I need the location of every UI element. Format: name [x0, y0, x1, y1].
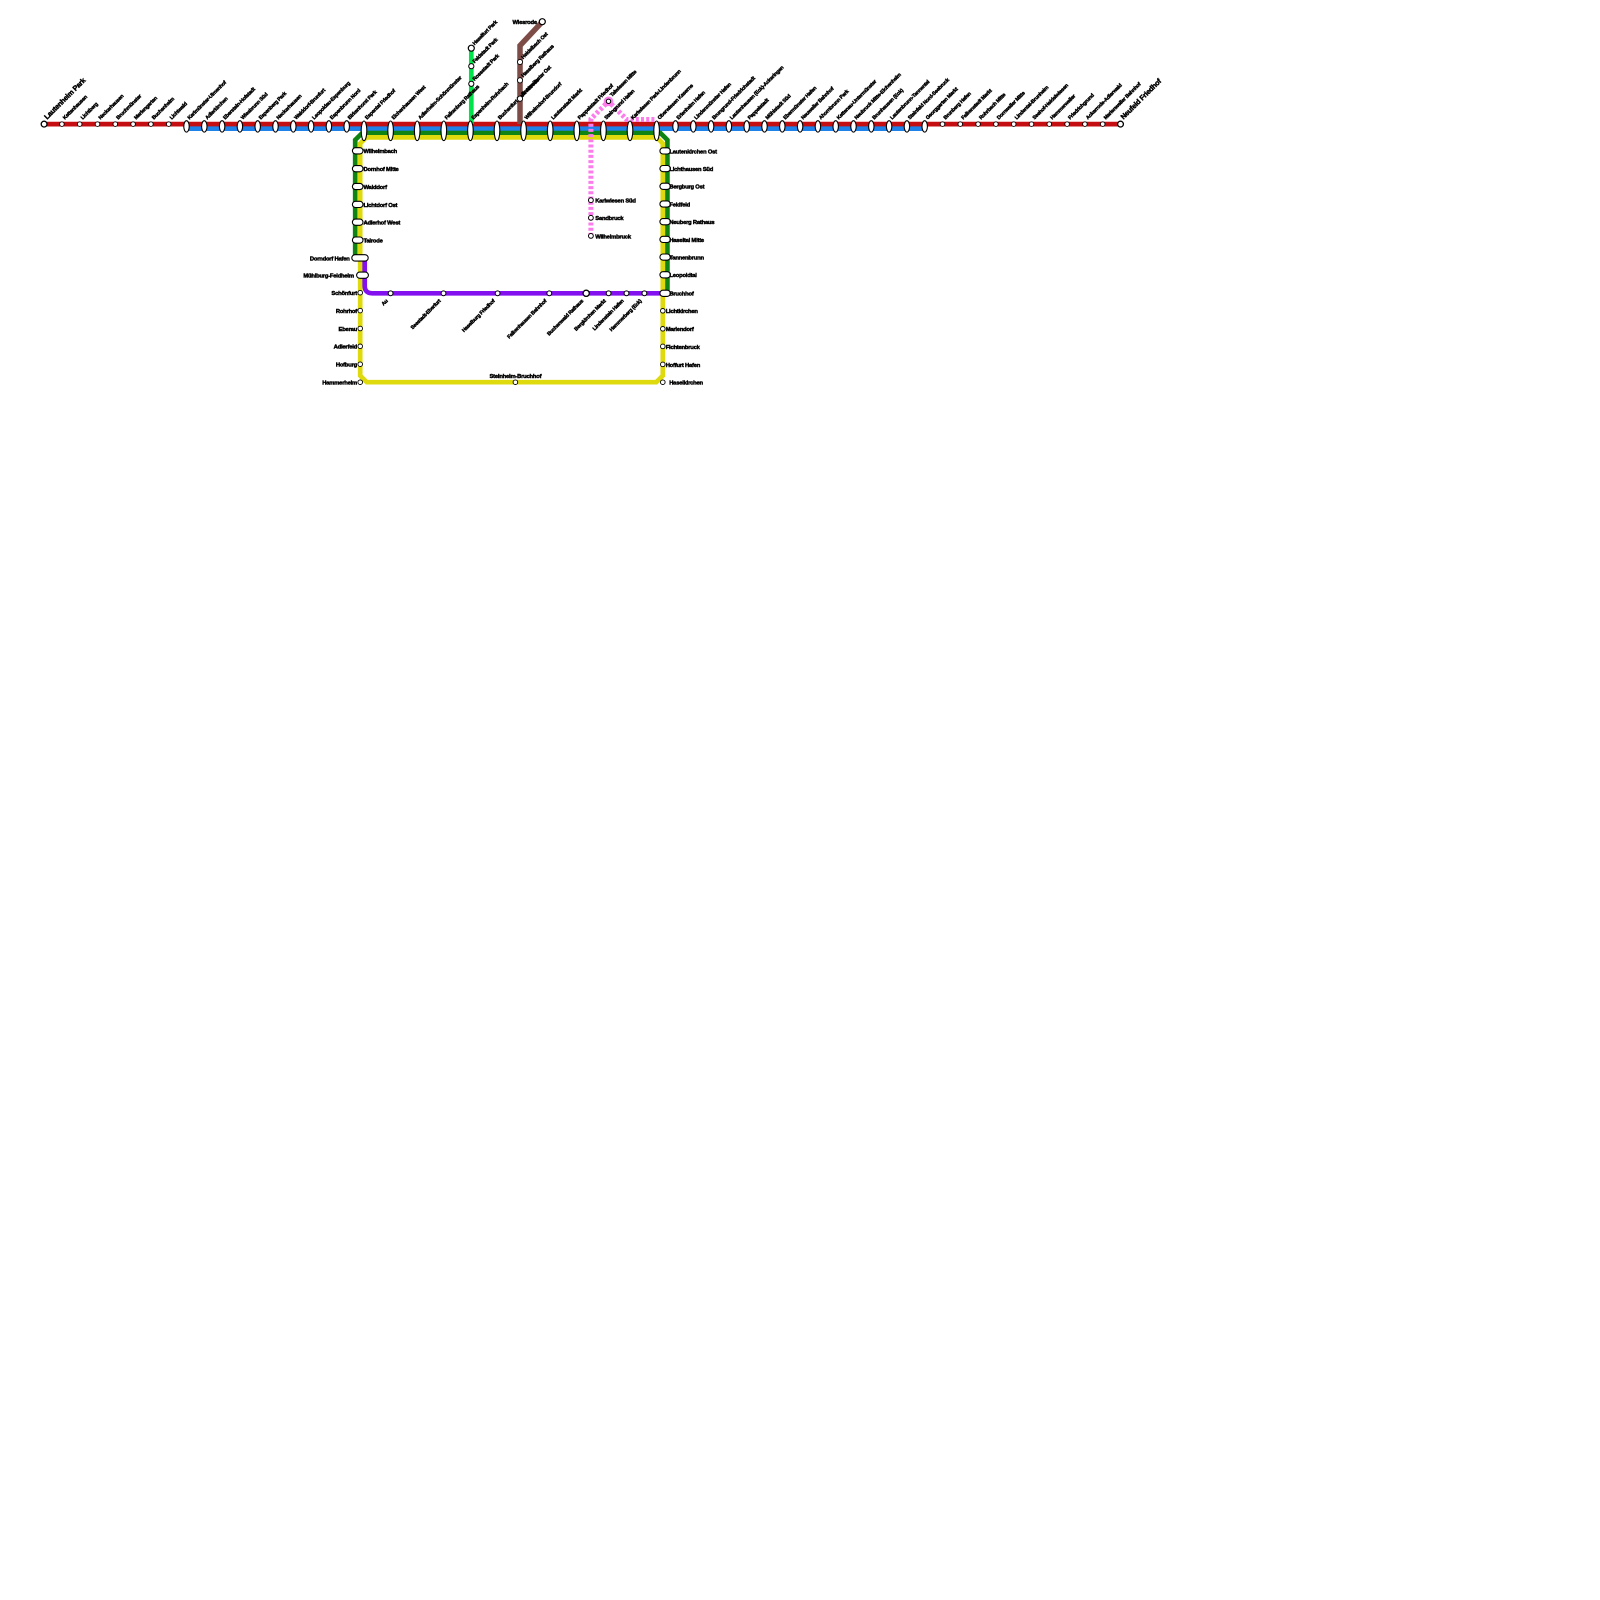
svg-text:Leopoldtal: Leopoldtal — [669, 273, 697, 279]
station yellow-right y=311 — [661, 309, 666, 314]
bottom yellow station — [513, 380, 518, 385]
station yellow-left y=346 — [358, 344, 363, 349]
station red+blue #17 — [344, 121, 349, 132]
station red+blue #34 — [744, 121, 749, 132]
station red #3 — [95, 122, 100, 127]
station right-loop y=239 — [660, 236, 670, 242]
svg-text:Steinheim-Bruchhof: Steinheim-Bruchhof — [490, 374, 542, 380]
station red+blue #39 — [833, 121, 838, 132]
station left-loop y=240 — [352, 237, 363, 243]
station 4-line #25 — [547, 121, 553, 141]
svg-text:Neuberg Rathaus: Neuberg Rathaus — [669, 220, 714, 226]
svg-text:Lichthausen Süd: Lichthausen Süd — [669, 167, 713, 173]
station left-loop y=151 — [352, 148, 363, 154]
station yellow-right y=364 — [661, 362, 666, 367]
station red #52 — [1065, 122, 1070, 127]
station red #45 — [940, 122, 945, 127]
station red+blue #35 — [762, 121, 767, 132]
bottom-left corner station — [358, 380, 363, 385]
station red #50 — [1029, 122, 1034, 127]
station red #48 — [994, 122, 999, 127]
station right-loop y=186 — [660, 183, 670, 189]
station 4-line #23 — [494, 121, 500, 141]
line S8 pink dashed (u/c) — [591, 101, 657, 236]
station purple x=444 — [441, 291, 446, 296]
station right-loop y=151 — [660, 148, 670, 154]
svg-text:Rohrhof: Rohrhof — [336, 309, 357, 315]
station 4-line #26 — [574, 121, 580, 141]
station red+blue #40 — [851, 121, 856, 132]
station red+blue #30 — [673, 121, 678, 132]
line S7 brown stub — [520, 22, 542, 124]
station pink y=236 — [589, 234, 594, 239]
station purple x=626 — [624, 291, 629, 296]
station red+blue #41 — [869, 121, 874, 132]
station purple x=586 — [583, 290, 589, 296]
station red #1 — [60, 122, 65, 127]
station yellow-right y=346 — [661, 344, 666, 349]
station left-loop y=204 — [352, 201, 363, 207]
station right-loop y=169 — [660, 166, 670, 172]
svg-text:Lichtdorf Ost: Lichtdorf Ost — [364, 203, 398, 209]
svg-text:Walddorf: Walddorf — [364, 185, 388, 191]
svg-text:Karlwiesen Süd: Karlwiesen Süd — [595, 199, 636, 205]
station red+blue #9 — [202, 121, 207, 132]
station red+blue #38 — [815, 121, 820, 132]
svg-text:Hammerheim: Hammerheim — [322, 381, 357, 387]
station 4-line #21 — [441, 121, 447, 141]
station red #54 — [1100, 122, 1105, 127]
station red+blue #43 — [904, 121, 909, 132]
station red+blue #16 — [326, 121, 331, 132]
station red+blue #14 — [291, 121, 296, 132]
svg-text:Dornhof Mitte: Dornhof Mitte — [364, 167, 400, 173]
station red+blue #37 — [797, 121, 802, 132]
station right-loop y=275 — [660, 272, 670, 278]
station red+blue #42 — [886, 121, 891, 132]
svg-text:Wilhelmbach: Wilhelmbach — [364, 149, 398, 155]
station 4-line #18 — [361, 121, 367, 141]
station left-loop y=169 — [352, 166, 363, 172]
station right-loop y=222 — [660, 219, 670, 225]
station red #4 — [113, 122, 118, 127]
svg-text:Sandbruck: Sandbruck — [595, 216, 624, 222]
station red #51 — [1047, 122, 1052, 127]
station 4-line #24 — [521, 121, 527, 141]
station red #46 — [958, 122, 963, 127]
station purple x=644 — [642, 291, 647, 296]
station 4-line #28 — [627, 121, 633, 141]
pink line stations — [606, 99, 610, 103]
station red+blue #12 — [255, 121, 260, 132]
svg-text:Adlerhof West: Adlerhof West — [364, 221, 401, 227]
station red #49 — [1011, 122, 1016, 127]
station brown y=80 — [517, 78, 522, 83]
station right-loop y=204 — [660, 201, 670, 207]
station brown y=62 — [517, 59, 522, 64]
station right-loop y=257 — [660, 254, 670, 260]
svg-text:Lautenkirchen Ost: Lautenkirchen Ost — [669, 149, 717, 155]
svg-text:Hoffurt Hafen: Hoffurt Hafen — [666, 363, 701, 369]
station red #7 — [166, 122, 171, 127]
station 4-line #19 — [388, 121, 394, 141]
station yellow-right y=329 — [661, 327, 666, 332]
svg-text:Bergburg Ost: Bergburg Ost — [669, 185, 704, 191]
station purple x=549 — [547, 291, 552, 296]
svg-text:Haseltal Mitte: Haseltal Mitte — [669, 238, 705, 244]
station yellow-left y=364 — [358, 362, 363, 367]
svg-text:Adlerfeld: Adlerfeld — [334, 345, 358, 351]
svg-text:Talrode: Talrode — [364, 239, 384, 245]
station left-loop y=222 — [352, 219, 363, 225]
purple junction on right loop (green terminus) — [660, 290, 670, 296]
station pink y=218 — [589, 215, 594, 220]
station red+blue #15 — [308, 121, 313, 132]
station 4-line #20 — [414, 121, 420, 141]
svg-text:Dorndorf Hafen: Dorndorf Hafen — [310, 256, 350, 262]
bottom-right corner station — [661, 380, 666, 385]
terminus station red #0 — [41, 121, 47, 127]
station yellow-left y=311 — [358, 308, 363, 313]
station 4-line #22 — [468, 121, 474, 141]
svg-text:Tannenbrunn: Tannenbrunn — [669, 256, 704, 262]
interchange green/yellow/purple (purple terminus) — [352, 255, 368, 261]
station red+blue #32 — [708, 121, 713, 132]
line S3 dark-green: left vertical, top horizontal, right vertical — [355, 133, 667, 292]
station brown y=99 — [517, 96, 522, 101]
line S4 yellow loop — [360, 137, 663, 382]
svg-text:Mühlburg-Feldheim: Mühlburg-Feldheim — [303, 274, 353, 280]
station 4-line #27 — [601, 121, 607, 141]
station red+blue #10 — [219, 121, 224, 132]
terminus station red #55 — [1118, 121, 1124, 127]
station red+blue #31 — [691, 121, 696, 132]
station red+blue #44 — [922, 121, 927, 132]
station purple x=498 — [495, 291, 500, 296]
station red #6 — [149, 122, 154, 127]
svg-text:Feldfeld: Feldfeld — [669, 202, 690, 208]
station red+blue #13 — [273, 121, 278, 132]
svg-text:Eberau: Eberau — [339, 327, 358, 333]
svg-text:Lichtkirchen: Lichtkirchen — [666, 309, 699, 315]
station red #53 — [1083, 122, 1088, 127]
svg-text:Wiesrode: Wiesrode — [512, 20, 537, 26]
line S5 purple — [365, 258, 662, 293]
svg-text:Fichtenbruck: Fichtenbruck — [666, 345, 701, 351]
station red+blue #33 — [726, 121, 731, 132]
station lgreen y=48 — [468, 45, 474, 51]
station red #47 — [976, 122, 981, 127]
station pink y=200 — [589, 198, 594, 203]
pink junction blob — [604, 97, 614, 107]
svg-text:Bruchhof: Bruchhof — [669, 292, 693, 298]
station yellow-left y=293 — [358, 290, 363, 295]
svg-text:Haselkirchen: Haselkirchen — [669, 381, 703, 387]
station purple x=609 — [606, 291, 611, 296]
station lgreen y=84 — [469, 81, 474, 86]
svg-text:Hofburg: Hofburg — [336, 363, 358, 369]
brown line stations — [539, 19, 545, 25]
station left-loop y=186 — [352, 183, 363, 189]
station red #2 — [77, 122, 82, 127]
station red+blue #8 — [184, 121, 189, 132]
station red+blue #36 — [780, 121, 785, 132]
station red #5 — [131, 122, 136, 127]
station yellow-left y=328 — [358, 326, 363, 331]
station red+blue #11 — [237, 121, 242, 132]
svg-text:Wilhelmbruck: Wilhelmbruck — [595, 234, 632, 240]
station 4-line #29 — [654, 121, 660, 141]
station yellow+purple — [357, 272, 369, 278]
line S2 blue horizontal — [187, 126, 925, 131]
station lgreen y=66 — [469, 64, 474, 69]
line S6 bright-green stub — [469, 48, 474, 124]
svg-text:Mariendorf: Mariendorf — [666, 327, 694, 333]
station purple x=391 — [388, 291, 393, 296]
svg-text:Schönfurt: Schönfurt — [331, 291, 357, 297]
line S1 red horizontal — [44, 122, 1120, 127]
